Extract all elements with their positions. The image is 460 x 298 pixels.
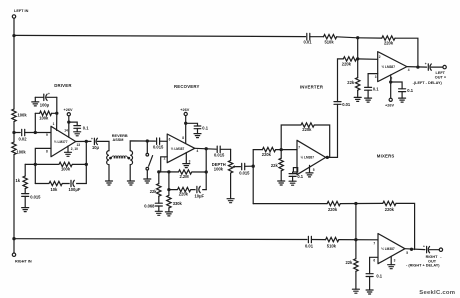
node junction right-in / bottom rail <box>12 237 15 240</box>
wire supply stub pin 14 <box>68 116 70 138</box>
svg-text:INVERTER: INVERTER <box>300 85 324 90</box>
resistor 100k (left input summing) <box>12 109 28 122</box>
wire right mixer output <box>405 248 425 251</box>
capacitor 0.1 (left mixer supply bypass) <box>391 82 414 98</box>
node top rail junction <box>356 36 359 39</box>
wire pickup to recovery <box>130 141 155 151</box>
svg-text:7: 7 <box>373 241 375 245</box>
op-amp U2a recovery 1/2 LM387 <box>164 134 199 163</box>
capacitor 10uF (recovery AC feedback) <box>195 186 205 198</box>
ground (driver LF shaping) <box>22 196 29 211</box>
svg-text:0.1: 0.1 <box>376 274 382 279</box>
ground (driver gnd pins) <box>65 146 72 156</box>
wire summing vertical (right) <box>355 204 357 240</box>
ground (left mixer input bypass) <box>365 98 372 102</box>
svg-text:2.2M: 2.2M <box>180 174 190 179</box>
svg-text:330k: 330k <box>173 201 183 206</box>
svg-text:+: + <box>425 62 427 66</box>
svg-text:0.015: 0.015 <box>30 194 41 199</box>
svg-text:1: 1 <box>53 122 55 126</box>
svg-text:3: 3 <box>394 259 396 263</box>
svg-text:4: 4 <box>197 149 199 153</box>
wire to recovery input <box>160 140 168 142</box>
wire inverter output <box>326 156 338 158</box>
wire feedback row <box>25 163 86 165</box>
svg-text:RIGHT IN: RIGHT IN <box>15 259 32 263</box>
wire feedback row <box>159 171 206 173</box>
resistor 220k (inverter feedback) <box>301 123 314 132</box>
svg-text:510k: 510k <box>327 244 337 249</box>
reverb spring <box>109 156 130 159</box>
wire to pot <box>220 148 230 150</box>
svg-text:8: 8 <box>46 149 48 153</box>
capacitor 0.015 (depth wiper) <box>239 163 250 175</box>
svg-text:+26V: +26V <box>180 108 189 112</box>
resistor 22k (recovery LF) <box>150 172 161 196</box>
svg-text:0.015: 0.015 <box>153 145 164 150</box>
wire to right summing node <box>340 202 383 204</box>
op-amp U3b right mixer 1/2 LM387 <box>373 234 408 264</box>
svg-text:½ LM387: ½ LM387 <box>382 65 396 69</box>
node junction left-in / top rail <box>12 34 15 37</box>
wire second feedback row verticals <box>35 164 86 183</box>
wire summing vertical <box>357 38 359 59</box>
svg-text:4: 4 <box>408 68 410 72</box>
resistor 220k (inverter input) <box>262 147 276 157</box>
svg-text:2: 2 <box>379 55 381 59</box>
terminal RIGHT IN <box>12 239 32 264</box>
ground (330k) <box>165 208 172 216</box>
svg-text:0.01: 0.01 <box>305 244 314 249</box>
terminal LEFT IN <box>12 9 28 18</box>
svg-text:220k: 220k <box>385 207 395 212</box>
capacitor 100u (driver bias bypass) with ground <box>35 92 57 107</box>
wire recovery feedback vertical <box>205 149 207 190</box>
capacitor output (right, polarized) <box>423 244 430 252</box>
svg-text:14: 14 <box>64 129 68 133</box>
wire <box>311 239 325 241</box>
pin square (inverter tab pin) <box>293 168 297 172</box>
svg-text:220k: 220k <box>179 192 189 197</box>
svg-text:REVERB: REVERB <box>112 134 128 138</box>
svg-text:9: 9 <box>46 133 48 137</box>
svg-text:+26V: +26V <box>64 108 73 112</box>
svg-text:22k: 22k <box>150 189 158 194</box>
wire delay feed vertical up <box>337 104 339 157</box>
ground (right mixer gnd stub) <box>388 256 395 268</box>
svg-text:10k: 10k <box>51 187 59 192</box>
ground (left mixer supply bypass) <box>399 98 406 102</box>
svg-text:5: 5 <box>406 251 408 255</box>
resistor 2.2M (recovery feedback) <box>178 170 191 179</box>
potentiometer DEPTH 100k <box>212 149 233 198</box>
resistor 220k (recovery AC feedback) <box>177 187 190 196</box>
svg-text:0.1: 0.1 <box>297 174 303 179</box>
svg-text:220k: 220k <box>384 41 394 46</box>
capacitor 0.01 (right direct feed) <box>305 236 314 248</box>
wire bias corner <box>56 97 58 113</box>
wire top rail (left signal) <box>14 35 306 36</box>
node supply junction <box>67 120 70 123</box>
node feedback right junction <box>85 163 88 166</box>
wire to left summing node <box>337 37 358 38</box>
ground (inverter gnd stub) <box>306 165 313 177</box>
capacitor 0.1 (driver supply bypass) with ground <box>69 122 89 132</box>
wire right delay row <box>253 203 327 205</box>
wire recovery lower input to feedback <box>161 157 168 172</box>
node left summing junction <box>356 57 359 60</box>
ground (mute switch) <box>144 179 151 183</box>
wire down to bottom rail <box>13 155 15 239</box>
ground (drive coil) <box>106 181 113 185</box>
wire mix node to 0.02 <box>14 132 20 134</box>
ground (recovery gnd pin) <box>183 153 190 168</box>
capacitor 0.015 (depth pot feed) <box>214 146 225 158</box>
ground (driver supply bypass) <box>74 132 81 136</box>
resistor 22k (left mixer bias) <box>347 59 360 90</box>
wire left mixer output <box>407 66 427 69</box>
svg-text:DRIVER: DRIVER <box>54 83 72 88</box>
wire left mixer + input <box>368 74 378 88</box>
svg-text:0.02: 0.02 <box>19 137 28 142</box>
svg-text:220k: 220k <box>342 61 352 66</box>
wire supply stub pin 8 <box>390 75 392 98</box>
wire to node X <box>245 165 254 167</box>
ground (right mixer input bypass) <box>366 290 373 294</box>
svg-text:7: 7 <box>298 145 300 149</box>
terminal RIGHT OUT <box>406 248 443 268</box>
capacitor 0.015 (recovery input) <box>153 138 164 150</box>
wire to mix node <box>13 122 15 142</box>
label REVERB ASSM <box>112 134 128 142</box>
wire driver feedback vertical <box>85 141 87 164</box>
svg-text:LEFT IN: LEFT IN <box>14 9 29 13</box>
capacitor 0.1 (recovery supply bypass) with ground <box>186 123 209 133</box>
svg-text:ASSM: ASSM <box>113 138 124 142</box>
node mute switch junction <box>146 139 149 142</box>
op-amp U1a driver 1/2 LM377 <box>46 126 80 156</box>
op-amp U2b inverter 1/2 LM387 <box>297 140 326 174</box>
wire pin 8 input L <box>35 148 51 164</box>
svg-text:+: + <box>423 244 425 248</box>
capacitor 0.1 (left mixer input bypass) <box>365 86 380 98</box>
svg-text:SeekIC.com: SeekIC.com <box>419 290 455 296</box>
svg-text:22k: 22k <box>347 80 355 85</box>
node mix junction <box>12 131 15 134</box>
svg-text:½ LM377: ½ LM377 <box>54 140 68 144</box>
op-amp U3a left mixer 1/2 LM387 <box>375 52 410 82</box>
wiper arrow <box>232 165 240 168</box>
svg-text:10μ: 10μ <box>92 145 100 150</box>
inductor reverb pickup coil <box>130 151 132 181</box>
svg-text:0.1: 0.1 <box>407 88 413 93</box>
svg-text:100k: 100k <box>18 113 28 118</box>
wire pin1 stub <box>53 113 57 130</box>
wire 0.02 to bias node <box>25 132 51 134</box>
wire to inverter input <box>276 149 297 151</box>
resistor 220k (right delay summing) <box>327 201 340 212</box>
wire left input vertical <box>13 36 15 109</box>
resistor 22k (inverter bias) <box>271 150 284 171</box>
svg-text:0.1: 0.1 <box>373 86 379 91</box>
node recovery output junction <box>205 147 208 150</box>
node feedback left junction <box>34 163 37 166</box>
svg-text:22k: 22k <box>271 163 279 168</box>
resistor 220k (left delay summing) <box>342 57 357 67</box>
ground (depth pot) <box>227 199 234 203</box>
wire bottom rail (right signal) <box>14 238 307 241</box>
svg-text:0.01: 0.01 <box>342 102 351 107</box>
capacitor 0.068 (recovery LF) <box>144 196 162 208</box>
node X delay junction <box>252 165 255 168</box>
node driver output junction <box>85 140 88 143</box>
capacitor 0.01 (left direct feed) <box>304 33 313 44</box>
inductor reverb drive coil <box>107 151 109 181</box>
svg-text:10μF: 10μF <box>195 193 205 198</box>
svg-text:100k: 100k <box>214 167 224 172</box>
svg-text:3: 3 <box>189 159 191 163</box>
svg-text:RIGHT: RIGHT <box>426 255 438 259</box>
terminal +26V (left mixer) <box>385 98 394 107</box>
node right summing top junction <box>354 202 357 205</box>
wire left feedback row <box>358 37 382 39</box>
capacitor 10u (reverb drive coupling) <box>91 137 100 150</box>
capacitor 0.015 (driver LF shaping) <box>22 189 41 200</box>
svg-text:220k: 220k <box>302 127 312 132</box>
svg-text:+: + <box>91 137 93 141</box>
svg-text:0.015: 0.015 <box>214 153 225 158</box>
node 330k junction <box>167 170 170 173</box>
node second row junction <box>167 188 170 191</box>
svg-text:220k: 220k <box>328 207 338 212</box>
wire second feedback row <box>35 183 86 185</box>
wire recovery output <box>195 147 217 150</box>
resistor 510k (right direct feed) <box>326 237 339 248</box>
node right summing junction <box>354 238 357 241</box>
wire LEFT IN to top rail <box>13 18 15 36</box>
svg-text:-(LEFT - DELAY): -(LEFT - DELAY) <box>413 81 443 85</box>
ground (inverter bias) <box>278 171 285 185</box>
svg-text:2, 10: 2, 10 <box>71 147 78 151</box>
svg-text:½ LM387: ½ LM387 <box>381 247 395 251</box>
wire up to left mixer row <box>338 59 344 102</box>
resistor 22k (right mixer bias) <box>346 240 359 272</box>
svg-text:3: 3 <box>375 75 377 79</box>
wire to reverb coil <box>97 141 109 150</box>
svg-text:+: + <box>48 92 50 96</box>
svg-text:0.01: 0.01 <box>304 40 313 45</box>
node supply junction <box>184 122 187 125</box>
node left output junction <box>416 65 419 68</box>
node feedback row junction <box>205 170 208 173</box>
svg-text:5: 5 <box>313 168 315 172</box>
svg-text:½ LM387: ½ LM387 <box>301 155 315 159</box>
terminal +26V (recovery) <box>180 108 189 116</box>
svg-text:510k: 510k <box>325 40 335 45</box>
resistor 220k (right mixer feedback) <box>383 201 396 212</box>
svg-text:220k: 220k <box>262 152 272 157</box>
ground (right mixer bias) <box>352 271 359 293</box>
ground (left mixer bias) <box>354 90 361 101</box>
svg-text:6: 6 <box>373 258 375 262</box>
node bias junction <box>55 112 58 115</box>
wire node X vertical <box>253 150 262 204</box>
ground (bias bypass) <box>32 97 39 106</box>
wire <box>310 36 324 38</box>
svg-text:100k: 100k <box>39 115 49 120</box>
wire to RIGHT OUT terminal <box>429 249 439 251</box>
svg-text:100μ: 100μ <box>40 103 50 108</box>
ground (recovery supply bypass) <box>194 134 201 138</box>
wire to right summing node <box>339 239 378 241</box>
resistor 100k (driver feedback) <box>59 162 72 171</box>
capacitor output (left, polarized) <box>425 62 432 71</box>
svg-text:1k: 1k <box>16 178 21 183</box>
ground (pickup coil) <box>127 181 134 185</box>
ground (recovery LF) <box>155 206 162 215</box>
svg-text:½ LM387: ½ LM387 <box>171 147 185 151</box>
wire to left summing node <box>357 58 378 60</box>
wire inverter feedback loop <box>281 125 330 157</box>
wire feedback corner <box>395 38 418 67</box>
capacitor 0.02 (driver input) <box>19 129 28 141</box>
resistor 1k (driver LF shaping) <box>16 164 28 188</box>
svg-text:8: 8 <box>182 136 184 140</box>
svg-text:MIXERS: MIXERS <box>377 153 395 158</box>
node 22k junction <box>157 170 160 173</box>
node inverter output junction <box>326 156 329 159</box>
svg-text:RECOVERY: RECOVERY <box>174 84 200 89</box>
node bias/input junction <box>34 131 37 134</box>
wire feedback corner (right) <box>396 203 415 249</box>
svg-text:100μF: 100μF <box>69 187 81 192</box>
resistor 220k (left mixer feedback) <box>382 36 395 46</box>
svg-text:0.1: 0.1 <box>202 126 208 131</box>
terminal LEFT OUT <box>413 65 447 84</box>
svg-text:0.015: 0.015 <box>239 170 250 175</box>
resistor 100k (right input summing) <box>12 142 27 155</box>
node right output junction <box>410 248 413 251</box>
wire second feedback row <box>169 189 206 191</box>
wire to LEFT OUT terminal <box>431 66 443 68</box>
svg-text:13: 13 <box>77 143 81 147</box>
svg-text:- (RIGHT + DELAY): - (RIGHT + DELAY) <box>406 264 440 268</box>
node inverter input junction <box>280 148 283 151</box>
terminal +26V (driver) <box>64 108 73 116</box>
svg-text:OUT =: OUT = <box>435 75 447 79</box>
svg-text:-: - <box>440 256 442 260</box>
svg-text:100k: 100k <box>17 150 27 155</box>
svg-text:+26V: +26V <box>385 103 394 107</box>
svg-text:22k: 22k <box>346 260 354 265</box>
svg-text:0.068: 0.068 <box>144 204 155 209</box>
wire supply stub <box>185 116 187 144</box>
switch mute (SPST) <box>146 141 153 179</box>
wire right mixer + input <box>370 257 378 273</box>
resistor 10k (driver AC feedback) <box>49 181 62 192</box>
svg-text:100k: 100k <box>61 166 71 171</box>
capacitor 100uF (driver AC feedback) <box>69 180 81 192</box>
resistor 330k (recovery bias) <box>167 190 183 208</box>
capacitor 0.1 (inverter pin) with ground <box>289 172 304 181</box>
capacitor 0.01 (left delay coupling) <box>334 102 351 107</box>
capacitor 0.1 (right mixer input bypass) <box>366 274 383 290</box>
wire driver output <box>76 140 91 142</box>
ground (inverter pin cap) <box>289 181 296 185</box>
resistor 510k (left direct feed) <box>324 35 337 45</box>
wire 330k/second row vertical <box>168 172 170 190</box>
svg-text:0.1: 0.1 <box>83 125 89 130</box>
resistor 100k (driver bias) <box>35 111 57 132</box>
node supply junction <box>389 80 392 83</box>
svg-text:6: 6 <box>169 137 171 141</box>
